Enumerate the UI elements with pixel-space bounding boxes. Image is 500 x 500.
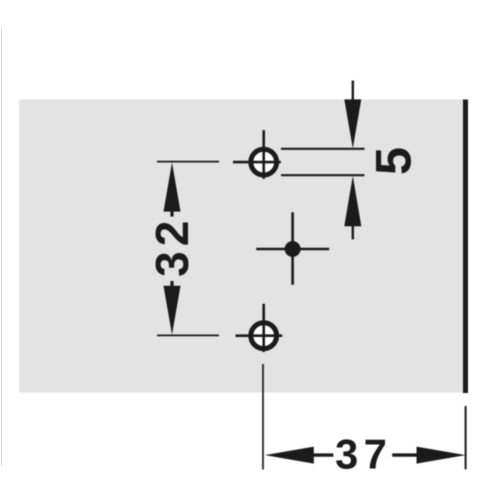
dim37 right extension wire — [465, 406, 467, 469]
dim5 arrow up — [344, 176, 361, 227]
dim5 upper edge line — [281, 148, 365, 150]
center mark crosshair horizontal wire — [256, 248, 329, 251]
dim37 left extension wire — [262, 364, 264, 470]
plate right edge (thick) — [463, 100, 468, 394]
dim32 arrow up — [164, 162, 181, 211]
plate face — [19, 100, 464, 393]
svg-text:37: 37 — [335, 431, 392, 478]
dim5 lower arrow tail wire — [352, 226, 354, 240]
dim37 right tail wire — [392, 453, 417, 456]
scan artifact line left edge — [1, 28, 3, 466]
hole H2 crosshair vertical wire — [262, 304, 265, 352]
svg-text:5: 5 — [365, 147, 422, 175]
dim32 bottom extension tick — [157, 334, 219, 336]
dim32 arrow up tail wire — [170, 211, 173, 217]
dim32 arrow down — [164, 286, 181, 335]
hole H2 crosshair horizontal wire — [236, 334, 283, 337]
dim37 arrow right — [417, 447, 466, 464]
dim32 top extension tick — [157, 161, 219, 163]
dim5 upper arrow lead wire — [352, 81, 354, 101]
center mark dot — [285, 241, 301, 257]
hole H2 ring — [251, 323, 277, 349]
dim5 lower edge line — [281, 174, 364, 176]
dim32 arrow down tail wire — [170, 281, 173, 286]
dim37 left tail wire — [313, 453, 333, 456]
hole H1 crosshair vertical wire — [262, 130, 265, 179]
dim5 arrow down — [344, 99, 361, 148]
svg-text:32: 32 — [146, 216, 198, 277]
hole H1 crosshair horizontal wire — [233, 161, 281, 164]
hole H1 ring — [251, 149, 277, 175]
center mark crosshair vertical wire — [291, 212, 294, 285]
dim37 arrow left — [265, 447, 314, 464]
